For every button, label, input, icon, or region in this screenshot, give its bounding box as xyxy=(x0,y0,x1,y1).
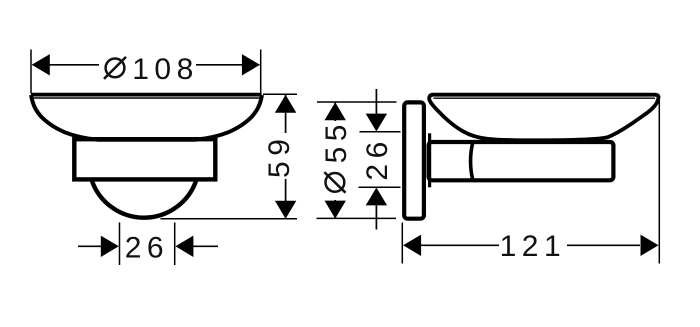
dimension 121: left arrowhead xyxy=(403,235,421,256)
dimension Ø108: left extension line xyxy=(30,50,32,94)
front view: bowl underside outline xyxy=(31,95,262,140)
front view: dish rim inner thin line xyxy=(33,97,261,99)
svg-text:108: 108 xyxy=(132,53,199,86)
dimension Ø55: bottom extension line xyxy=(317,217,397,219)
dimension Ø108: dimension line left segment xyxy=(33,64,100,66)
side view: bowl rim inner thin line xyxy=(434,97,656,99)
dimension Ø55: diameter symbol rotated xyxy=(324,172,345,193)
side view: collar edge behind arm xyxy=(428,133,431,187)
dimension 59: top extension line xyxy=(263,93,297,95)
dimension Ø108: left arrowhead xyxy=(32,54,50,75)
dimension Ø55: dimension line upper segment xyxy=(334,103,336,122)
svg-text:26: 26 xyxy=(361,136,394,180)
dimension Ø108: diameter symbol xyxy=(104,57,126,79)
dimension 26 side: top arrowhead pointing down xyxy=(366,114,387,132)
dimension 26 front: left tail line xyxy=(78,245,101,247)
front view: bottom dome arc xyxy=(92,181,196,218)
dimension 121: right arrowhead xyxy=(641,235,659,256)
dimension Ø108: right extension line xyxy=(260,50,262,94)
dimension 121: right extension line xyxy=(658,100,660,264)
side view: holder ring joint line xyxy=(471,143,473,181)
dimension Ø108: right arrowhead xyxy=(242,54,260,75)
dimension 59: top arrowhead xyxy=(275,95,296,113)
dimension Ø55: top arrowhead xyxy=(325,102,346,120)
dimension Ø55: dimension line lower segment xyxy=(334,200,336,218)
side view: wall plate xyxy=(404,102,424,218)
dimension 59: bottom extension line xyxy=(161,218,298,220)
dimension 26 side: upper line above arrow xyxy=(375,89,377,114)
dimension Ø55: bottom arrowhead xyxy=(325,201,346,219)
svg-text:59: 59 xyxy=(263,134,296,178)
dimension 26 front: left extension line xyxy=(119,223,121,266)
dimension 26 side: lower line below arrow xyxy=(375,205,377,229)
dimension 26 front: right tail line xyxy=(193,245,218,247)
dimension 59: dimension line lower segment xyxy=(285,179,287,218)
side view: soap dish bowl outline xyxy=(429,95,658,141)
dimension Ø108: dimension line right segment xyxy=(196,64,260,66)
front view: stem rectangle xyxy=(74,139,215,179)
dimension 26 side: top extension line xyxy=(360,131,401,133)
svg-text:26: 26 xyxy=(125,231,169,264)
dimension 26 front: right arrowhead pointing left xyxy=(175,236,193,257)
dimension 121: left extension line xyxy=(401,223,403,264)
side view: support arm xyxy=(429,142,614,180)
svg-text:121: 121 xyxy=(500,230,567,263)
dimension 121: dimension line right segment xyxy=(567,244,640,246)
svg-text:55: 55 xyxy=(320,119,353,163)
dimension 121: dimension line left segment xyxy=(421,244,499,246)
dimension Ø55: top extension line xyxy=(317,101,397,103)
dimension 26 side: bottom extension line xyxy=(359,186,401,188)
dimension 26 side: bottom arrowhead pointing up xyxy=(366,188,387,206)
dimension 26 front: right extension line xyxy=(174,223,176,266)
dimension 59: dimension line upper segment xyxy=(285,95,287,133)
dimension 59: bottom arrowhead xyxy=(275,201,296,219)
dimension 26 front: left arrowhead pointing right xyxy=(101,236,119,257)
front view: dish rim top line xyxy=(31,93,262,97)
